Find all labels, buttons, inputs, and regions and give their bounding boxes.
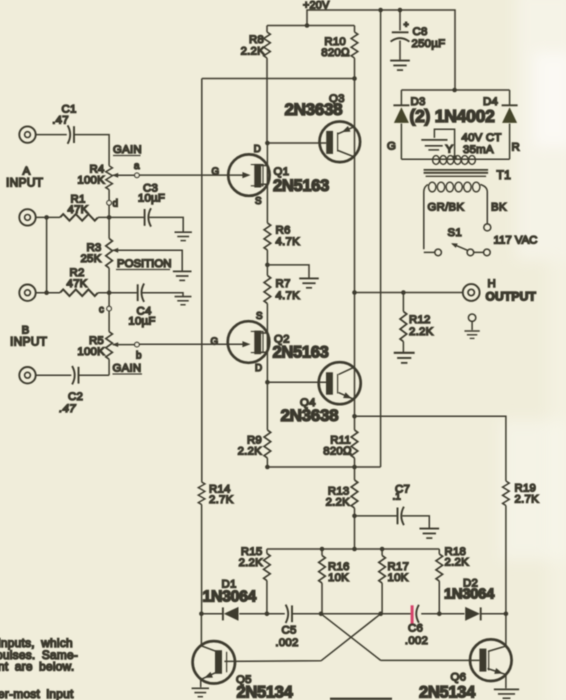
- node: Q4 emitter junction: [352, 414, 357, 419]
- node: riser junction: [305, 23, 310, 28]
- wire: C2 to R5 bottom: [79, 374, 110, 376]
- svg-text:.47: .47: [52, 115, 69, 127]
- wire: main vertical Q3/Q4 line: [354, 79, 356, 417]
- svg-text:b: b: [136, 351, 142, 362]
- caption text fragment: [0, 636, 78, 700]
- wire: cross-couple C5 to Q6 base: [321, 614, 479, 661]
- svg-text:c: c: [99, 305, 104, 316]
- resistor R7: [264, 276, 300, 304]
- node: jack link bottom: [44, 290, 49, 295]
- wire: R9/R11 bottom line: [267, 466, 380, 468]
- potentiometer R4: [77, 164, 134, 218]
- capacitor C8: [391, 10, 446, 60]
- node: rail junction to bus: [378, 8, 383, 13]
- svg-text:INPUT: INPUT: [10, 335, 48, 349]
- svg-text:2N5134: 2N5134: [419, 684, 476, 700]
- svg-text:2.2K: 2.2K: [238, 446, 263, 458]
- svg-text:C8: C8: [413, 26, 428, 38]
- wire: junction to ground: [267, 265, 309, 278]
- node: R13 bottom: [352, 547, 357, 552]
- wire: Q2 source-drain vertical down to R9: [266, 304, 268, 431]
- svg-text:R12: R12: [409, 314, 431, 326]
- wire: R10 bottom to left feedback bus: [202, 78, 355, 80]
- node: R6/R7 junction: [265, 263, 270, 268]
- switch S1: [435, 224, 491, 256]
- wire: secondary right lead: [480, 185, 487, 225]
- svg-text:d: d: [113, 199, 118, 210]
- svg-text:2.2K: 2.2K: [445, 557, 470, 569]
- node: R17 top: [380, 547, 385, 552]
- wire: Q1 drain-source vertical: [266, 143, 268, 223]
- svg-text:S: S: [255, 196, 262, 207]
- wire: left feedback bus: [201, 79, 203, 483]
- svg-text:H: H: [488, 278, 496, 290]
- wire: C1 to R4 top: [74, 135, 109, 166]
- wire: jack to R2: [36, 292, 60, 294]
- svg-text:S: S: [256, 311, 263, 322]
- wire: jack link vertical: [46, 217, 48, 292]
- wire: jack to C1: [36, 134, 67, 136]
- svg-text:Q6: Q6: [451, 672, 467, 684]
- resistor R8: [241, 26, 271, 144]
- potentiometer R5: [77, 293, 134, 376]
- node: R18 bottom: [437, 612, 442, 617]
- potentiometer R3: [80, 217, 182, 292]
- svg-text:2.2K: 2.2K: [239, 557, 264, 569]
- svg-text:(2) 1N4002: (2) 1N4002: [410, 106, 496, 126]
- wire: R2 to C4: [98, 292, 137, 294]
- transformer T1 core: [424, 170, 489, 176]
- node: R11 bottom junction: [352, 465, 357, 470]
- svg-text:2.7K: 2.7K: [515, 494, 540, 506]
- resistor R1: [60, 194, 98, 221]
- diode D2: [444, 578, 495, 621]
- svg-text:47K: 47K: [67, 204, 88, 216]
- node: output line start: [352, 290, 357, 295]
- svg-text:GAIN: GAIN: [113, 363, 142, 375]
- svg-text:R: R: [512, 142, 520, 154]
- svg-text:2.2K: 2.2K: [326, 497, 351, 509]
- connector jack B lower: [19, 367, 35, 383]
- resistor R17: [379, 549, 409, 614]
- label B INPUT: [10, 325, 48, 349]
- wire: rectifier loop rectangle: [401, 90, 509, 159]
- svg-text:40V CT: 40V CT: [462, 132, 502, 144]
- svg-text:1N3064: 1N3064: [203, 589, 257, 606]
- svg-text:R8: R8: [249, 34, 264, 46]
- node: R12 top junction: [401, 290, 406, 295]
- resistor R9: [238, 430, 271, 467]
- svg-text:BK: BK: [491, 202, 507, 214]
- transistor Q5: [193, 614, 294, 700]
- diode D3: [393, 96, 425, 123]
- connector jack B upper: [19, 285, 35, 301]
- svg-text:.002: .002: [405, 635, 428, 647]
- wire: gate B wire: [140, 343, 245, 345]
- cropped caption rule: [330, 698, 392, 700]
- node: C7 junction: [352, 514, 357, 519]
- svg-text:2N3638: 2N3638: [281, 406, 339, 425]
- wire: jack to C2: [36, 374, 72, 376]
- wire: cross-couple C6 to Q5 base: [224, 614, 380, 662]
- wire: C4 to ground: [142, 293, 183, 296]
- resistor R14: [198, 482, 233, 506]
- node: C8 lead to rectifier: [452, 88, 457, 93]
- wire: R1 to C3: [98, 216, 144, 218]
- node: D2 cathode / Q6 collector: [504, 612, 509, 617]
- resistor R15: [239, 546, 271, 614]
- svg-text:OUTPUT: OUTPUT: [486, 290, 537, 304]
- connector jack A upper: [19, 126, 35, 142]
- ground (R6/R7 divider): [299, 278, 318, 287]
- svg-text:2.7K: 2.7K: [209, 494, 234, 506]
- capacitor C1: [52, 104, 76, 144]
- node: center tap: [452, 155, 457, 160]
- node: Q1 drain / Q3 base junction: [265, 141, 270, 146]
- ground (C8): [390, 61, 410, 70]
- diode D1: [203, 579, 257, 621]
- label GAIN (B): [113, 363, 143, 375]
- wire: Q4 emitter line to R19: [355, 416, 506, 481]
- svg-text:47K: 47K: [66, 278, 87, 290]
- resistor R19: [503, 481, 539, 614]
- label POSITION: [116, 258, 171, 270]
- svg-text:GR/BK: GR/BK: [428, 202, 465, 214]
- wire: secondary left lead: [424, 185, 435, 253]
- node: R16 top: [320, 547, 325, 552]
- svg-text:820Ω: 820Ω: [321, 47, 350, 59]
- wire: output line: [355, 292, 463, 294]
- svg-text:.002: .002: [275, 637, 298, 649]
- wire: jack to R1: [36, 216, 60, 218]
- ground pin jack: [464, 314, 479, 338]
- svg-text:R6: R6: [276, 225, 291, 237]
- svg-text:2.2K: 2.2K: [241, 46, 266, 58]
- svg-text:.1: .1: [393, 492, 401, 503]
- svg-text:10K: 10K: [328, 572, 349, 584]
- transistor Q2 (FET): [211, 311, 329, 374]
- svg-text:10K: 10K: [388, 572, 409, 584]
- capacitor C3: [138, 183, 165, 227]
- svg-text:D: D: [254, 144, 261, 155]
- connector jack A lower: [19, 209, 35, 225]
- svg-text:+20V: +20V: [303, 0, 330, 12]
- ground (R3 wiper): [173, 271, 192, 280]
- node: R15 bottom: [265, 612, 270, 617]
- svg-text:a: a: [134, 161, 140, 172]
- wire: gate A wire: [140, 174, 245, 176]
- ground (center tap): [421, 140, 447, 150]
- svg-text:+: +: [404, 19, 409, 29]
- label GAIN (A): [113, 144, 142, 156]
- node: R16 bottom / cross start: [319, 612, 324, 617]
- resistor R11: [323, 416, 358, 467]
- svg-text:10µF: 10µF: [138, 193, 165, 205]
- svg-text:T1: T1: [497, 168, 512, 182]
- capacitor C4: [128, 284, 155, 328]
- svg-text:250µF: 250µF: [412, 38, 446, 50]
- wire: +20V bus down right side: [380, 10, 382, 467]
- capacitor C6 (red plate): [405, 605, 428, 647]
- svg-text:100K: 100K: [77, 175, 105, 187]
- node: R17 bottom / cross start: [378, 612, 383, 617]
- transistor Q3: [285, 93, 361, 162]
- svg-text:2N3638: 2N3638: [285, 100, 343, 119]
- svg-text:INPUT: INPUT: [6, 176, 44, 190]
- svg-text:2N5163: 2N5163: [273, 177, 329, 195]
- svg-text:2.2K: 2.2K: [409, 326, 434, 338]
- svg-text:100K: 100K: [77, 346, 105, 358]
- diode D4: [483, 96, 518, 123]
- ground (Q6): [494, 689, 519, 698]
- svg-text:S1: S1: [448, 227, 462, 239]
- svg-text:.47: .47: [59, 403, 76, 415]
- resistor R2: [60, 267, 98, 296]
- svg-text:10µF: 10µF: [128, 316, 155, 328]
- node: R3 bottom junction: [107, 290, 112, 295]
- ground (C7): [419, 529, 439, 538]
- transistor Q1 (FET): [212, 144, 330, 207]
- ground (Q5): [192, 688, 209, 696]
- wire: C3 to ground: [149, 217, 183, 231]
- svg-text:25K: 25K: [80, 253, 101, 265]
- svg-text:2N5134: 2N5134: [237, 684, 294, 700]
- ground (R12): [394, 353, 415, 363]
- ground (C3): [175, 232, 192, 240]
- transistor Q6: [419, 614, 512, 700]
- svg-text:D: D: [255, 363, 262, 374]
- node c: [99, 305, 111, 316]
- wire: transformer center tap: [434, 129, 454, 157]
- ground (C4): [175, 297, 192, 305]
- wire: astable top line: [267, 548, 439, 550]
- svg-text:POSITION: POSITION: [117, 258, 171, 270]
- capacitor C5: [275, 605, 298, 649]
- node: R9 bottom corner: [265, 465, 270, 470]
- resistor R10: [321, 26, 358, 79]
- transformer T1 secondary winding: [429, 182, 480, 192]
- svg-text:4.7K: 4.7K: [276, 236, 301, 248]
- svg-text:G: G: [211, 337, 219, 348]
- capacitor C7: [355, 484, 430, 529]
- svg-text:Y: Y: [446, 144, 454, 156]
- svg-text:C6: C6: [408, 623, 423, 635]
- svg-text:35mA: 35mA: [463, 144, 494, 156]
- transistor Q4: [281, 362, 361, 425]
- node: jack link top: [44, 215, 49, 220]
- resistor R13: [326, 467, 358, 549]
- +20V supply rail: [267, 10, 455, 90]
- node: rail junction to C8: [398, 8, 403, 13]
- node b: [135, 342, 142, 361]
- svg-text:2N5163: 2N5163: [273, 344, 329, 362]
- connector H OUTPUT: [463, 278, 537, 304]
- node: Q2 drain / Q4 base junction: [265, 380, 270, 385]
- svg-text:er-most input: er-most input: [0, 687, 74, 700]
- node: R4 bottom junction: [107, 215, 112, 220]
- node: D1 left junction: [199, 612, 204, 617]
- svg-text:R7: R7: [276, 278, 291, 290]
- label A INPUT: [6, 166, 44, 190]
- svg-text:nt are below.: nt are below.: [0, 660, 74, 674]
- capacitor C2: [59, 366, 83, 415]
- svg-text:G: G: [387, 141, 396, 153]
- wire: Q3 base wire: [267, 142, 326, 144]
- resistor R12: [400, 293, 433, 353]
- resistor R18: [436, 546, 469, 614]
- transformer T1 primary winding: [433, 156, 476, 165]
- svg-text:GAIN: GAIN: [113, 144, 142, 156]
- svg-text:4.7K: 4.7K: [276, 290, 301, 302]
- wire: left bus lower part: [201, 505, 203, 614]
- svg-text:C5: C5: [281, 625, 296, 637]
- resistor R6: [264, 223, 300, 276]
- node a: [134, 161, 140, 178]
- wire: Q2 drain to Q4 base: [267, 381, 326, 383]
- svg-text:C2: C2: [68, 391, 83, 403]
- node: Q3 emitter junction: [352, 76, 357, 81]
- wire: astable bottom line segments: [201, 613, 506, 615]
- svg-text:820Ω: 820Ω: [323, 446, 352, 458]
- svg-text:1N3064: 1N3064: [444, 587, 495, 603]
- resistor R16: [319, 549, 350, 614]
- node d: [107, 199, 118, 210]
- svg-text:117 VAC: 117 VAC: [494, 235, 538, 247]
